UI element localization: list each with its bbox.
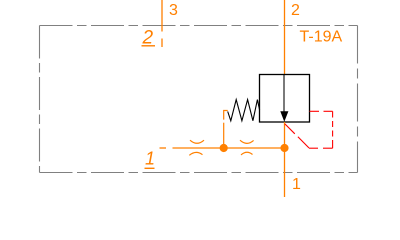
svg-text:T-19A: T-19A bbox=[300, 29, 343, 46]
pilot line top segment bbox=[310, 110, 333, 112]
pilot line diagonal (red dashed) bbox=[285, 124, 309, 148]
svg-text:3: 3 bbox=[169, 2, 178, 19]
junction dot right bbox=[280, 144, 288, 152]
spring bbox=[228, 100, 260, 121]
wire port 3 bbox=[161, 0, 163, 47]
svg-text:1: 1 bbox=[145, 149, 155, 169]
flex marks left pair bbox=[189, 140, 204, 155]
pilot line bottom segment bbox=[309, 147, 333, 149]
svg-text:2: 2 bbox=[291, 2, 300, 19]
wire port 1 bbox=[284, 122, 286, 197]
valve body U1 square bbox=[260, 75, 310, 123]
poppet flow line bbox=[283, 75, 285, 112]
poppet arrow bbox=[280, 111, 288, 122]
spring drain line (dashed orange) bbox=[224, 111, 228, 145]
flex marks right pair bbox=[240, 140, 254, 155]
junction dot left bbox=[220, 144, 228, 152]
wire port 2 bbox=[284, 0, 286, 75]
wire 1 (bottom horizontal) bbox=[160, 147, 285, 149]
enclosure dashed border bbox=[40, 26, 358, 173]
pilot line right segment bbox=[332, 111, 334, 148]
svg-text:1: 1 bbox=[292, 176, 301, 193]
